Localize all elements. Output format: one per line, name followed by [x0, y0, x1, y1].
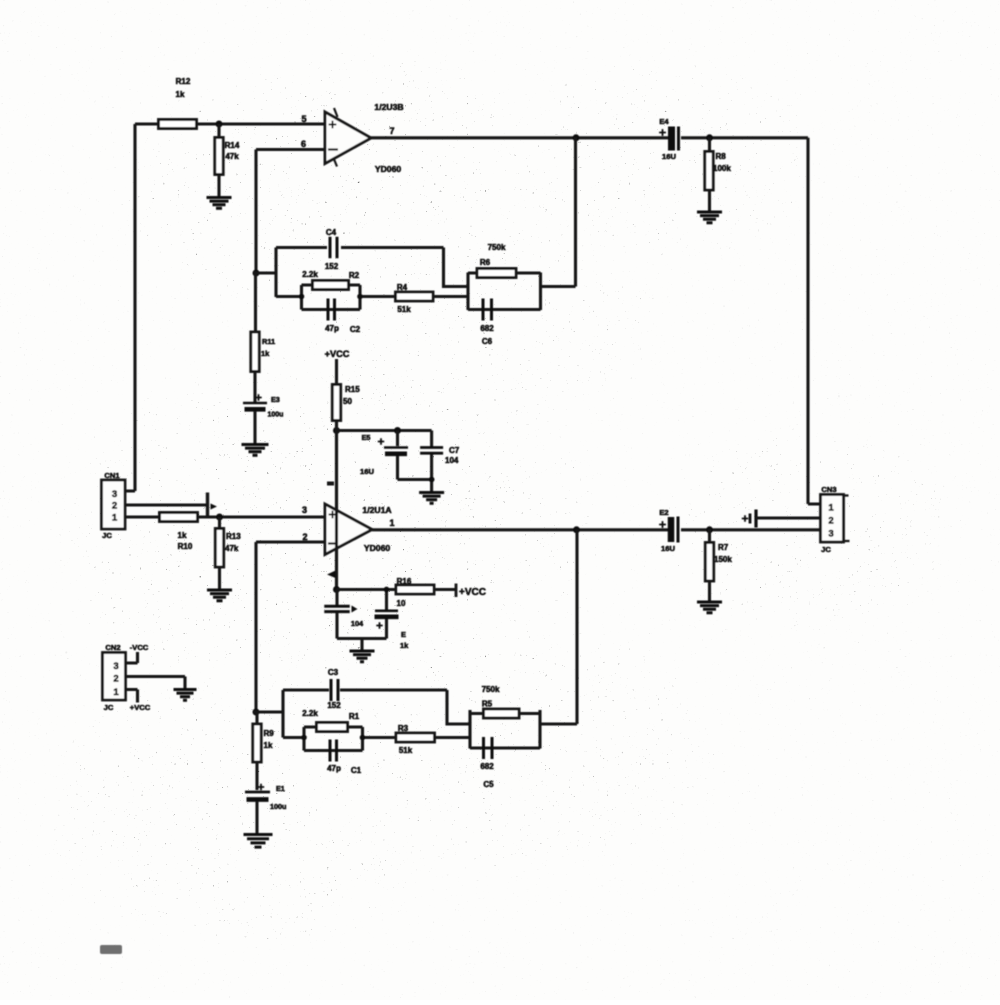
svg-text:100k: 100k [713, 164, 731, 173]
svg-text:C6: C6 [482, 337, 493, 346]
svg-text:1: 1 [828, 503, 834, 514]
svg-text:750k: 750k [488, 243, 506, 252]
svg-text:1k: 1k [176, 90, 185, 99]
svg-text:R1: R1 [349, 712, 360, 721]
svg-text:3: 3 [828, 529, 833, 540]
svg-text:C3: C3 [328, 668, 339, 677]
svg-text:R16: R16 [397, 577, 412, 586]
svg-text:682: 682 [480, 762, 494, 771]
svg-text:+VCC: +VCC [459, 587, 486, 598]
svg-text:JC: JC [821, 545, 831, 554]
svg-text:E: E [401, 630, 406, 639]
svg-text:1: 1 [112, 513, 118, 524]
svg-text:50: 50 [343, 397, 352, 406]
svg-text:C2: C2 [350, 325, 361, 334]
svg-text:C1: C1 [351, 766, 362, 775]
svg-text:682: 682 [480, 324, 494, 333]
svg-text:R10: R10 [178, 542, 193, 551]
svg-text:16U: 16U [662, 152, 676, 161]
svg-text:R5: R5 [482, 700, 493, 709]
svg-text:JC: JC [104, 703, 114, 712]
svg-text:16U: 16U [360, 467, 374, 476]
svg-text:2: 2 [113, 674, 118, 685]
svg-text:E3: E3 [271, 395, 280, 404]
svg-text:R4: R4 [397, 283, 408, 292]
svg-text:2.2k: 2.2k [302, 270, 318, 279]
svg-text:47k: 47k [225, 152, 239, 161]
svg-text:3: 3 [113, 661, 118, 672]
svg-text:E5: E5 [362, 433, 371, 442]
svg-text:R2: R2 [349, 271, 360, 280]
svg-text:R9: R9 [264, 729, 275, 738]
svg-text:+VCC: +VCC [130, 703, 151, 712]
svg-text:R7: R7 [718, 543, 729, 552]
svg-text:152: 152 [327, 701, 341, 710]
svg-text:1/2U1A: 1/2U1A [362, 505, 391, 515]
svg-text:47p: 47p [325, 324, 339, 333]
svg-text:2: 2 [112, 501, 117, 512]
svg-text:CN2: CN2 [105, 643, 120, 652]
svg-text:R11: R11 [262, 337, 275, 346]
svg-text:R15: R15 [345, 385, 360, 394]
svg-text:150k: 150k [714, 555, 732, 564]
svg-text:104: 104 [351, 619, 364, 628]
svg-text:JC: JC [102, 531, 112, 540]
svg-text:C4: C4 [326, 228, 337, 237]
svg-text:1: 1 [389, 518, 394, 528]
svg-text:750k: 750k [482, 685, 500, 694]
svg-text:1k: 1k [264, 741, 273, 750]
svg-text:3: 3 [112, 489, 117, 500]
svg-text:5: 5 [301, 114, 306, 124]
svg-text:+VCC: +VCC [325, 349, 350, 359]
svg-text:C7: C7 [449, 446, 460, 455]
svg-text:1k: 1k [261, 349, 270, 358]
svg-text:YD060: YD060 [375, 164, 401, 174]
svg-text:R8: R8 [716, 152, 727, 161]
svg-text:-VCC: -VCC [130, 643, 149, 652]
svg-text:16U: 16U [661, 544, 675, 553]
svg-text:2.2k: 2.2k [302, 709, 318, 718]
svg-text:C5: C5 [483, 780, 494, 789]
svg-text:CN3: CN3 [821, 485, 836, 494]
svg-text:R14: R14 [225, 141, 240, 150]
svg-text:1: 1 [113, 687, 119, 698]
svg-text:R6: R6 [480, 258, 491, 267]
svg-text:R3: R3 [398, 724, 409, 733]
svg-text:6: 6 [301, 139, 306, 149]
svg-text:47k: 47k [225, 544, 239, 553]
svg-text:YD060: YD060 [364, 543, 390, 553]
svg-text:100u: 100u [270, 802, 286, 811]
svg-text:R13: R13 [226, 532, 241, 541]
svg-text:1k: 1k [400, 641, 409, 650]
svg-text:E4: E4 [659, 117, 669, 126]
svg-text:152: 152 [325, 262, 339, 271]
svg-text:10: 10 [397, 599, 406, 608]
svg-text:1/2U3B: 1/2U3B [374, 102, 403, 112]
svg-text:CN1: CN1 [104, 471, 120, 480]
svg-text:47p: 47p [327, 764, 341, 773]
svg-text:51k: 51k [399, 746, 413, 755]
svg-text:51k: 51k [397, 305, 411, 314]
svg-text:R12: R12 [176, 77, 191, 86]
svg-text:7: 7 [389, 126, 394, 136]
svg-text:3: 3 [302, 505, 307, 515]
svg-text:100u: 100u [268, 412, 284, 419]
svg-text:1k: 1k [178, 531, 187, 540]
svg-text:2: 2 [828, 516, 833, 527]
svg-text:E1: E1 [276, 784, 285, 793]
svg-text:104: 104 [445, 456, 459, 465]
svg-text:E2: E2 [659, 508, 668, 517]
